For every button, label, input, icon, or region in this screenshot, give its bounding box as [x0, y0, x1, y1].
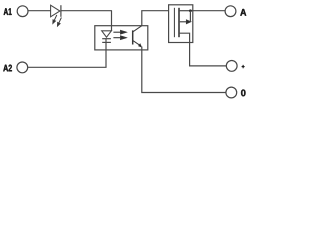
terminal A	[225, 6, 236, 17]
terminal plus	[226, 61, 237, 72]
LED D1 emission arrows	[53, 15, 62, 26]
junction dot	[189, 9, 192, 12]
node A label	[240, 9, 246, 16]
optocoupler phototransistor	[133, 26, 142, 48]
wire collector riser	[142, 11, 169, 26]
wire riser into optocoupler	[111, 11, 113, 31]
wire LED to corner	[61, 10, 112, 12]
MOSFET source tap	[179, 33, 190, 42]
node A2 label	[3, 65, 12, 72]
wire A2 to opto cathode	[28, 38, 106, 67]
MOSFET gate bar	[173, 8, 175, 37]
MOSFET drain tap	[179, 10, 193, 12]
optocoupler U1 box	[95, 26, 148, 50]
MOSFET channel bar	[178, 8, 180, 37]
MOSFET body tie vertical	[189, 11, 191, 22]
node 0 label	[241, 90, 245, 97]
transistor Q1 MOSFET box	[169, 5, 193, 43]
optocoupler coupling arrows	[113, 31, 126, 40]
node A1 label	[4, 8, 12, 15]
wire A1 to LED	[28, 10, 51, 12]
wire source to terminal plus	[190, 43, 227, 66]
wire emitter to terminal 0	[142, 47, 226, 93]
LED D1	[51, 5, 61, 17]
wire drain to terminal A	[193, 10, 225, 12]
MOSFET body arrow	[180, 20, 191, 23]
terminal 0	[226, 87, 237, 98]
terminal A1	[17, 6, 28, 17]
terminal A2	[17, 62, 28, 73]
optocoupler LED	[102, 31, 112, 43]
node plus label	[242, 65, 245, 68]
